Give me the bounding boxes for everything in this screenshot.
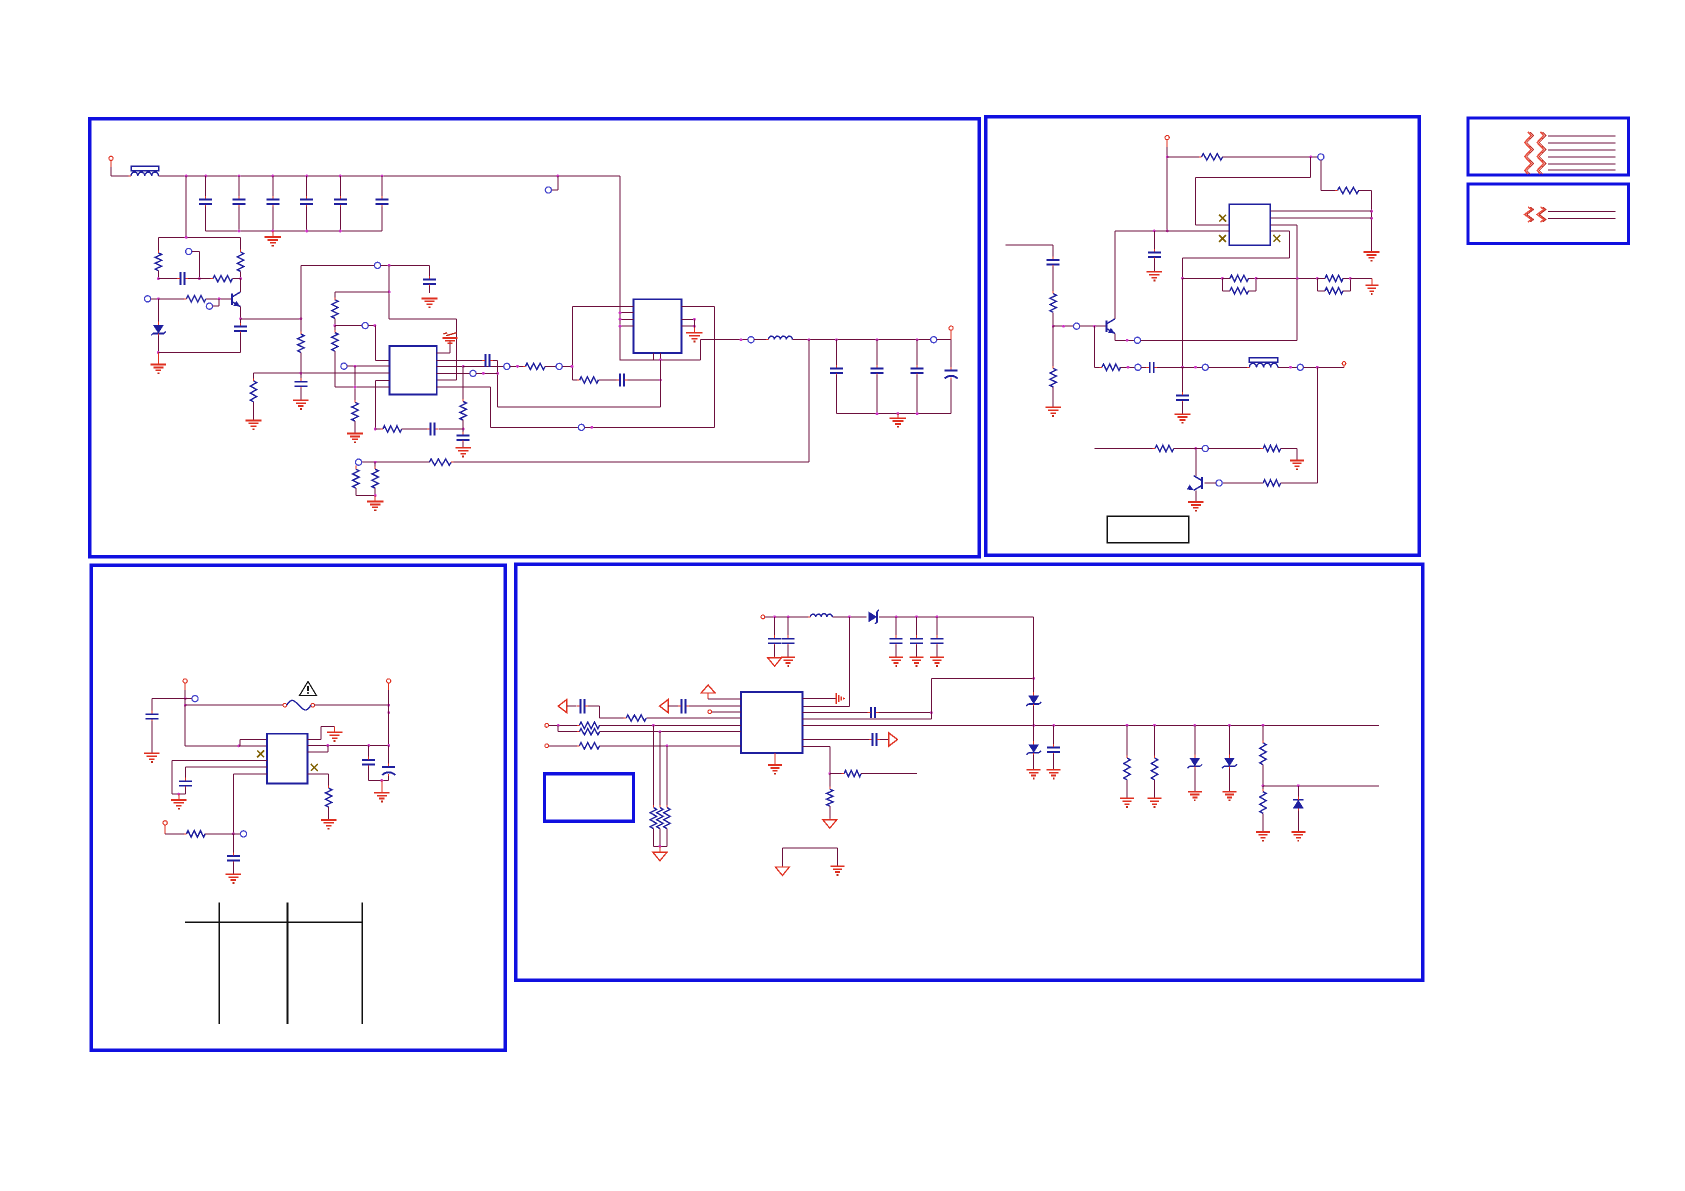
- resistor R17: [1335, 187, 1372, 193]
- legend line B1: [1548, 211, 1616, 213]
- capacitor C25: [227, 834, 240, 874]
- wire U2 pin R1: [682, 306, 715, 427]
- capacitor C11: [402, 423, 465, 436]
- resistor R23: [1050, 326, 1056, 407]
- capacitor C6: [376, 176, 389, 231]
- test point TP15: [1134, 337, 1297, 343]
- resistor R14: [353, 465, 359, 495]
- wire output: [701, 338, 748, 341]
- table line v1: [218, 902, 220, 1024]
- ground G16: [1045, 407, 1061, 416]
- test point TP8: [437, 370, 498, 376]
- resistor R7: [352, 366, 358, 433]
- node bias row: [157, 277, 242, 280]
- resistor R1: [155, 237, 161, 278]
- capacitor C8: [234, 319, 247, 353]
- test point TP9: [578, 424, 714, 430]
- capacitor C14: [598, 374, 661, 387]
- wire to TP: [1223, 156, 1318, 159]
- capacitor C17: [911, 340, 924, 414]
- ground G5: [246, 420, 262, 429]
- ground G20: [171, 794, 187, 809]
- wire U1 pin L3: [254, 372, 390, 375]
- ground G6: [293, 400, 309, 409]
- node res row: [1181, 277, 1224, 280]
- legend line A2: [1548, 142, 1616, 144]
- test point TP2: [186, 248, 200, 278]
- wire node A riser: [300, 265, 302, 318]
- wire to Q3 base: [1283, 367, 1317, 483]
- no-connect X3: [1273, 235, 1280, 242]
- table line h1: [185, 921, 362, 923]
- resistor R42: [827, 774, 833, 819]
- resistor R24: [1099, 364, 1134, 370]
- capacitor C9: [423, 265, 436, 293]
- terminal J3: [1165, 136, 1169, 233]
- wire dogleg to U3: [1195, 157, 1310, 225]
- node bead out: [1278, 366, 1297, 369]
- ground G43: [831, 866, 845, 875]
- capacitor C19: [1148, 231, 1161, 271]
- resistor-divider top wire: [158, 176, 240, 239]
- wire rail to U5: [803, 617, 850, 707]
- wire branch x389: [388, 265, 391, 319]
- wire bias bottom: [158, 352, 240, 354]
- resistor R12: [572, 377, 601, 383]
- ground G24: [374, 793, 390, 802]
- resistor R8: [250, 373, 256, 420]
- terminal J10: [545, 744, 580, 748]
- signal ground G30: [803, 693, 846, 704]
- label box (part number): [1107, 516, 1189, 543]
- zener diode D2: [869, 610, 880, 624]
- ground G10: [890, 414, 906, 427]
- wire U1 pin L4: [374, 381, 389, 431]
- wire U2 bottom: [620, 353, 701, 361]
- wire U2 pin L1 loop: [571, 306, 634, 380]
- terminal J2 (output): [949, 326, 953, 340]
- wire to U1 pin L1: [375, 326, 389, 361]
- net arrow right A3: [889, 733, 898, 746]
- wire emitter riser: [1296, 278, 1298, 340]
- test point TP7: [556, 363, 573, 369]
- terminal J8: [761, 615, 810, 619]
- resistor R40: [664, 746, 670, 847]
- resistor R18: [1222, 275, 1256, 281]
- net arrow left A1: [660, 700, 680, 713]
- capacitor C2: [233, 176, 246, 231]
- test point TP22: [240, 831, 246, 837]
- test point TP18: [1297, 364, 1344, 370]
- wire fb to divider: [362, 461, 427, 464]
- resistor R33: [1260, 786, 1266, 832]
- wire U4 R5: [308, 774, 329, 788]
- legend line A5: [1548, 163, 1616, 165]
- wire Q1 collector: [240, 279, 242, 292]
- legend line A6: [1548, 169, 1616, 171]
- capacitor C5: [334, 176, 347, 231]
- wire bead row: [1183, 366, 1203, 369]
- resistor R3: [199, 275, 240, 281]
- ground G18: [1290, 460, 1304, 469]
- transistor Q3 (mirrored): [1187, 476, 1202, 491]
- capacitor C24: [179, 767, 192, 794]
- resistor R27: [1261, 445, 1297, 460]
- test point TP5: [335, 323, 376, 329]
- ground G2: [151, 353, 167, 374]
- test point TP19: [1205, 480, 1264, 486]
- legend line B2: [1548, 218, 1616, 220]
- IC U3: [1229, 204, 1270, 245]
- resistor R38: [650, 725, 656, 846]
- wire to R5 stack: [335, 292, 389, 300]
- test point TP10: [748, 337, 769, 343]
- capacitor C23: [145, 711, 158, 753]
- zener diode D4: [1026, 725, 1041, 769]
- wire U4 pin4: [172, 760, 267, 794]
- ground G17: [1188, 502, 1204, 511]
- wire U4 pin6: [232, 774, 267, 835]
- legend box A: [1468, 118, 1629, 175]
- wire base row: [1095, 448, 1156, 450]
- inductor L1: [766, 336, 795, 339]
- ground G31: [1027, 770, 1041, 779]
- wire U3 R3 chain: [1270, 225, 1297, 278]
- resistor R30: [1124, 725, 1130, 797]
- resistor R34: [624, 715, 741, 721]
- chassis ground G40: [653, 846, 667, 861]
- wire emitter-res: [298, 319, 304, 373]
- wire U3 right pins: [1270, 211, 1371, 218]
- wire rail: [832, 616, 866, 619]
- test point TP17: [1202, 364, 1249, 370]
- diode D6: [1222, 725, 1237, 791]
- IC U4: [267, 734, 307, 784]
- test point TP12: [356, 459, 362, 465]
- resistor R39: [657, 732, 663, 847]
- terminal J5: [183, 679, 187, 700]
- wire pair link: [1256, 277, 1319, 280]
- capacitor C36: [577, 699, 626, 718]
- ground G9: [686, 327, 702, 341]
- zener diode D3: [1026, 678, 1041, 725]
- no-connect X4: [257, 751, 264, 758]
- inductor L2: [808, 614, 835, 617]
- wire emitter node: [241, 317, 303, 320]
- chassis ground G25: [768, 657, 782, 667]
- wire rail to U2: [619, 176, 621, 360]
- wire bias feed: [1006, 245, 1054, 260]
- capacitor C26: [362, 746, 375, 781]
- wire divider bottom: [356, 494, 377, 497]
- capacitor C1: [199, 176, 212, 231]
- wire Q3 collector: [1195, 447, 1198, 476]
- wire Q3 emitter: [1195, 490, 1197, 501]
- resistor R37: [577, 743, 741, 749]
- ground G35: [1188, 792, 1202, 801]
- diode D7 (up): [1293, 786, 1304, 832]
- wire TP13 drop: [1321, 160, 1338, 191]
- ground G19: [144, 753, 160, 762]
- capacitor C22: [1146, 362, 1182, 373]
- resistor R5: [332, 297, 338, 327]
- label box (blue): [545, 774, 634, 822]
- capacitor C16: [871, 340, 884, 414]
- capacitor C34: [1047, 725, 1060, 769]
- resistor R26: [1153, 445, 1196, 451]
- capacitor C37: [803, 733, 889, 746]
- ground G26: [781, 657, 795, 666]
- capacitor C29: [782, 617, 795, 657]
- resistor R16: [1167, 154, 1225, 160]
- wire U1 R2 to U2: [496, 360, 660, 407]
- node rail junctions: [185, 175, 559, 178]
- capacitor C4: [300, 176, 313, 231]
- ground G29: [930, 657, 944, 666]
- ground G13: [1147, 272, 1163, 281]
- resistor R9: [375, 426, 404, 432]
- chassis ground G41: [823, 819, 837, 829]
- chassis ground G42: [775, 866, 789, 876]
- resistor R2: [237, 237, 243, 278]
- diode D5: [1187, 725, 1202, 791]
- wire U5 row4: [803, 718, 932, 720]
- capacitor C30: [890, 617, 903, 657]
- wire U4 R3 dogleg: [308, 746, 328, 753]
- wire fuse to vert: [315, 704, 391, 714]
- wire rail drop: [1033, 617, 1035, 679]
- terminal J1 (input): [109, 156, 131, 176]
- wire res bottoms: [653, 845, 667, 848]
- ground G39 (U5): [768, 753, 782, 774]
- wire U3 main row: [1115, 230, 1229, 233]
- wire U2 left pins: [619, 311, 634, 327]
- resistor R32: [1260, 725, 1266, 787]
- capacitor C7: [158, 272, 199, 285]
- resistor R31: [1151, 725, 1157, 797]
- terminal stub: [708, 710, 741, 714]
- transistor Q2: [1107, 319, 1115, 334]
- ground G15: [1175, 414, 1191, 423]
- box3 border (regulator section): [91, 565, 505, 1050]
- wire fuse row: [184, 699, 283, 707]
- net arrow up: [701, 685, 741, 699]
- wire branch: [558, 725, 579, 731]
- wire Q2 emitter: [1115, 334, 1134, 342]
- wire main rail: [159, 175, 621, 177]
- ground G11: [367, 496, 383, 511]
- wire U5 row7: [803, 747, 832, 775]
- wire Q2 collector: [1114, 231, 1116, 319]
- wire U4 pin5: [186, 766, 267, 768]
- resistor R28: [184, 831, 240, 837]
- ground G23: [321, 820, 337, 829]
- fuse F3: [283, 700, 315, 710]
- test point TP13: [1318, 154, 1324, 160]
- ground G32: [1047, 770, 1061, 779]
- no-connect X5: [311, 764, 318, 771]
- wire U4 pin2: [239, 745, 267, 747]
- capacitor C10: [294, 373, 307, 400]
- wire left drop: [185, 705, 240, 747]
- transistor Q1: [232, 292, 240, 307]
- test point TP3: [145, 296, 160, 302]
- wire output riser: [700, 340, 702, 360]
- wire Q2 base drop: [1094, 326, 1102, 367]
- IC U2: [634, 299, 682, 353]
- terminal J4: [1342, 362, 1346, 368]
- wire U3 R4 chain: [1183, 231, 1290, 279]
- wire feedback run: [454, 461, 809, 463]
- wire U4 R1 gnd: [308, 727, 335, 740]
- wire U4 pin1 dogleg: [240, 740, 267, 746]
- capacitor C27 (polarized): [382, 746, 395, 781]
- resistor R29: [326, 786, 332, 820]
- capacitor C15: [830, 340, 843, 414]
- test point TP20: [1196, 445, 1263, 451]
- test point TP6: [341, 363, 390, 369]
- wire U2 right gnd pins: [682, 318, 696, 328]
- legend zigzag A: [1525, 132, 1547, 174]
- test point TP4: [206, 299, 219, 310]
- capacitor C3: [266, 176, 279, 231]
- fuse/bead F1: [129, 166, 162, 176]
- resistor R15: [372, 462, 378, 495]
- terminal J9: [545, 724, 580, 728]
- ground G7: [455, 448, 471, 457]
- test point TP21: [185, 696, 198, 702]
- terminal J7: [163, 821, 186, 834]
- resistor R25: [1261, 480, 1284, 486]
- ground G37: [1256, 832, 1270, 841]
- resistor R21 (parallel): [1317, 277, 1351, 294]
- resistor R22: [1050, 291, 1056, 328]
- test point TP14: [1053, 323, 1106, 329]
- legend line A3: [1548, 149, 1616, 151]
- IC U5: [741, 692, 803, 753]
- capacitor C18 (polarized): [945, 340, 958, 414]
- capacitor C28: [768, 617, 781, 657]
- test point TP1: [545, 176, 557, 193]
- resistor R41: [830, 770, 917, 776]
- capacitor C32: [930, 617, 943, 657]
- box2 border (oscillator section): [986, 117, 1420, 555]
- legend box B: [1468, 184, 1629, 243]
- legend zigzag B: [1525, 207, 1547, 222]
- wire lower net: [1263, 784, 1379, 787]
- legend line A4: [1548, 156, 1616, 158]
- zener diode D1: [151, 299, 166, 354]
- ground G22: [327, 732, 343, 741]
- ground G34: [1148, 798, 1162, 807]
- ground G21: [226, 874, 242, 883]
- capacitor C12: [457, 429, 470, 447]
- wire to U1 pin R5: [389, 319, 457, 380]
- capacitor C33: [803, 707, 933, 718]
- wire cap bottoms: [369, 779, 389, 792]
- no-connect X1: [1219, 215, 1226, 222]
- net tie bracket: [782, 848, 837, 866]
- ground G4: [347, 434, 363, 443]
- box4 border (interface section): [516, 564, 1423, 980]
- resistor R19 (parallel): [1222, 277, 1257, 294]
- ground G28: [910, 657, 924, 666]
- wire pin4 bottom: [172, 793, 186, 796]
- legend line A1: [1548, 135, 1616, 137]
- wire step net: [931, 677, 1035, 719]
- IC U1: [389, 346, 436, 394]
- fuse/bead F2: [1247, 358, 1280, 368]
- warning triangle: [300, 682, 317, 696]
- ground G8 (slanted): [437, 333, 458, 353]
- wire U1 pin R6: [437, 387, 579, 428]
- wire cap bus: [206, 230, 382, 233]
- test point TP11: [931, 337, 951, 343]
- wire feedback drop: [808, 340, 810, 463]
- resistor R10: [516, 363, 556, 369]
- resistor R20: [1317, 275, 1350, 281]
- wire Q1 emitter: [239, 307, 242, 321]
- ground G38: [1291, 832, 1305, 841]
- ground G12: [1364, 252, 1380, 261]
- table line v2: [287, 902, 289, 1024]
- wire to C23: [152, 699, 185, 714]
- wire bead net drop: [1181, 278, 1184, 368]
- resistor R13: [427, 459, 454, 465]
- resistor R6: [332, 326, 338, 387]
- capacitor C20: [1176, 367, 1189, 413]
- wire U2 sub: [660, 360, 662, 407]
- wire R17 to gnd: [1370, 191, 1373, 252]
- no-connect X2: [1219, 235, 1226, 242]
- resistor R11: [460, 366, 466, 429]
- resistor R35: [577, 722, 741, 728]
- wire U4 R2 row: [308, 744, 391, 747]
- wire U1 pin R3 net: [437, 363, 526, 369]
- resistor R36: [577, 729, 741, 735]
- capacitor C21: [1047, 256, 1060, 293]
- resistor R4: [158, 296, 232, 302]
- ground G1: [265, 231, 281, 246]
- capacitor C35: [678, 699, 741, 714]
- wire output bus: [836, 412, 951, 415]
- test point TP16: [1135, 364, 1148, 370]
- wire rail2: [879, 616, 1034, 619]
- table line v3: [361, 902, 363, 1024]
- ground G14: [1350, 278, 1378, 294]
- wire U1 pin L5: [335, 386, 390, 389]
- terminal J6: [387, 679, 391, 746]
- wire output rail: [792, 338, 930, 341]
- capacitor C13: [437, 354, 498, 367]
- ground G27: [889, 657, 903, 666]
- wire long net: [803, 724, 1379, 727]
- ground G3: [422, 298, 438, 307]
- box1 border (power supply section): [90, 119, 979, 557]
- ground G36: [1222, 792, 1236, 801]
- capacitor C31: [910, 617, 923, 657]
- net arrow left A2: [558, 700, 576, 713]
- ground G33: [1120, 798, 1134, 807]
- wire node A top: [301, 262, 430, 268]
